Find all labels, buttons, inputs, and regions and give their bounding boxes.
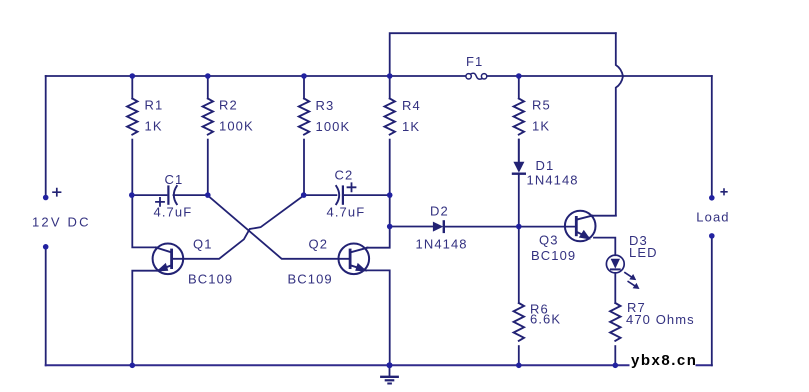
label battery plus (52, 188, 61, 197)
svg-text:1K: 1K (532, 119, 550, 134)
LED D3 (606, 255, 639, 289)
resistor R3 (299, 76, 309, 195)
resistor R5 (514, 76, 524, 162)
wire R5 to D1 (518, 140, 520, 162)
wire top rail right of fuse (488, 75, 712, 77)
resistor R7 (610, 303, 620, 365)
node D2 left junction (387, 224, 393, 230)
wire LED to R7 (614, 273, 616, 303)
svg-text:R4: R4 (402, 98, 421, 113)
svg-text:R3: R3 (316, 98, 335, 113)
wire Q3 emitter to LED (594, 238, 615, 256)
wire load branch upper (711, 76, 713, 198)
node top rail R4 (387, 73, 393, 79)
wire cross-coupling left node to Q2 base (208, 196, 351, 259)
node bottom rail ground (387, 362, 393, 368)
transistor Q2 (339, 243, 370, 274)
node load plus (709, 195, 715, 201)
svg-text:R2: R2 (219, 98, 238, 113)
svg-text:100K: 100K (316, 119, 351, 134)
svg-text:4.7uF: 4.7uF (327, 205, 366, 220)
watermark ybx8.cn (630, 352, 696, 368)
capacitor C1 (132, 186, 208, 206)
diode D2 (433, 221, 444, 232)
svg-text:6.6K: 6.6K (530, 312, 561, 327)
node top rail R1 (130, 73, 136, 79)
svg-text:BC109: BC109 (188, 272, 233, 287)
svg-text:BC109: BC109 (531, 248, 576, 263)
wire Q1 emitter vertical to ground rail (132, 271, 156, 366)
node C2 left (301, 192, 307, 198)
node bottom rail R6 (516, 363, 522, 369)
fuse F1 (466, 73, 487, 79)
svg-text:Load: Load (696, 210, 729, 225)
svg-text:BC109: BC109 (288, 272, 333, 287)
wire bottom rail (46, 364, 712, 366)
resistor R2 (203, 76, 213, 195)
node bottom rail Q1 emitter (130, 363, 136, 369)
node battery plus (43, 195, 49, 201)
wire C2 node down to D2 node (389, 195, 391, 226)
svg-text:C1: C1 (165, 172, 184, 187)
ground (381, 365, 397, 383)
svg-text:470 Ohms: 470 Ohms (626, 312, 695, 327)
svg-text:1N4148: 1N4148 (416, 237, 468, 252)
svg-text:Q2: Q2 (309, 237, 329, 252)
svg-text:Q1: Q1 (193, 237, 213, 252)
node top rail R2 (205, 73, 211, 79)
svg-text:Q3: Q3 (539, 233, 559, 248)
node C1 right (205, 192, 211, 198)
wire D2 row right to Q3 base (445, 226, 576, 228)
svg-text:100K: 100K (219, 119, 254, 134)
wire left rail bottom (45, 247, 47, 365)
svg-text:D2: D2 (430, 204, 449, 219)
wire cross-coupling right node to Q1 base (with hop jog) (172, 196, 304, 259)
transistor Q1 (153, 243, 184, 274)
node top rail R3 (301, 73, 307, 79)
node C2 right (387, 192, 393, 198)
wire D2 row left (390, 226, 434, 228)
wire D1 to D2 node (518, 175, 520, 227)
wire left rail top (45, 76, 47, 198)
svg-text:R1: R1 (145, 98, 164, 113)
wire Q2 collector vertical (367, 227, 390, 248)
node load minus (709, 233, 715, 239)
resistor R6 (514, 227, 524, 366)
wire bypass vertical with hop over top rail (616, 33, 623, 215)
resistor R4 (385, 76, 395, 195)
capacitor C2 (304, 183, 389, 204)
wire top bypass rail (390, 33, 616, 76)
node battery minus (43, 244, 49, 250)
node bottom rail R7 (613, 363, 619, 369)
node D1 D2 junction (516, 224, 522, 230)
svg-text:12V DC: 12V DC (32, 215, 91, 230)
wire Q3 collector to bypass vertical (592, 215, 616, 217)
node top rail R5 (516, 73, 522, 79)
svg-text:D1: D1 (536, 158, 555, 173)
wire load branch lower (711, 235, 713, 365)
diode D1 (513, 162, 525, 174)
node C1 left (129, 192, 135, 198)
svg-text:1N4148: 1N4148 (527, 173, 579, 188)
wire Q2 emitter vertical to ground rail (367, 270, 390, 365)
wire Q1 collector vertical (132, 195, 156, 247)
wire top rail left of fuse (46, 75, 466, 77)
svg-text:LED: LED (629, 245, 658, 260)
resistor R1 (127, 76, 137, 195)
svg-text:1K: 1K (145, 119, 163, 134)
svg-text:F1: F1 (466, 54, 483, 69)
svg-text:ybx8.cn: ybx8.cn (631, 352, 697, 369)
transistor Q3 (565, 211, 596, 242)
label load plus (720, 188, 727, 195)
svg-text:1K: 1K (402, 119, 420, 134)
svg-text:C2: C2 (335, 168, 354, 183)
svg-text:R5: R5 (532, 98, 551, 113)
svg-text:4.7uF: 4.7uF (154, 205, 193, 220)
